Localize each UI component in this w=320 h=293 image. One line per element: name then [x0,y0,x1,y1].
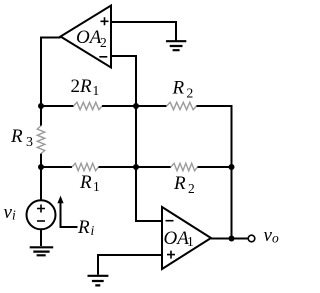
svg-text:R: R [79,76,92,97]
wire top row left [41,105,74,107]
node: output junction [229,236,235,242]
wire middle row left [41,166,72,168]
svg-text:R: R [173,173,186,194]
node: right rail middle [229,164,235,170]
op-amp OA1 [162,207,211,269]
svg-text:1: 1 [93,179,100,194]
wire source bottom [40,229,42,246]
ground (bottom, OA1) [88,276,109,286]
svg-text:2: 2 [100,35,107,50]
wire middle row middle [99,166,171,168]
terminal vo (open circle) [248,235,255,242]
wire node B down to OA1 - input [136,106,162,221]
OA1 minus pin [166,220,174,222]
svg-text:o: o [272,231,279,246]
svg-text:R: R [77,217,90,238]
OA2 plus pin [101,17,109,25]
svg-text:i: i [91,223,95,238]
svg-text:2: 2 [71,76,81,97]
Ri arrowhead [57,196,63,204]
node: R1/R2 junction [133,164,139,170]
svg-text:i: i [12,208,16,223]
resistor R1 [72,163,99,170]
wire middle row right [198,166,232,168]
wire OA1 output to terminal [211,238,248,240]
svg-text:R: R [172,78,185,99]
Ri arrow [61,202,78,227]
wire top row right + right rail [196,106,231,239]
svg-text:3: 3 [26,135,33,150]
resistor R3 [37,126,44,154]
source minus [37,220,45,222]
R3 leads [40,106,42,167]
source plus [37,205,45,213]
wire OA1 + input to ground [98,255,162,275]
wire OA2 - input down to node B [111,56,136,106]
svg-text:2: 2 [187,86,194,101]
resistor R2 bottom [171,163,198,170]
svg-text:1: 1 [187,234,194,249]
ground (top right) [166,41,186,50]
wire source top [40,167,42,200]
op-amp OA2 [61,6,112,68]
svg-text:R: R [10,126,23,147]
OA1 plus pin [167,251,175,259]
node: 2R1/R2 junction [133,103,139,109]
resistor 2R1 [74,102,103,109]
source vi circle [27,200,56,229]
wire top row middle [102,105,167,107]
svg-text:2: 2 [188,181,195,196]
ground (source) [30,247,54,255]
node: left top [38,103,44,109]
resistor R2 top [167,102,197,109]
svg-text:OA: OA [164,228,190,249]
wire OA2 + input to ground [111,22,176,41]
OA2 minus pin [99,56,107,58]
svg-text:1: 1 [93,83,100,98]
wire from OA2 output to left rail [41,38,61,107]
node: left middle [38,164,44,170]
svg-text:OA: OA [76,27,102,48]
svg-text:R: R [79,172,92,193]
